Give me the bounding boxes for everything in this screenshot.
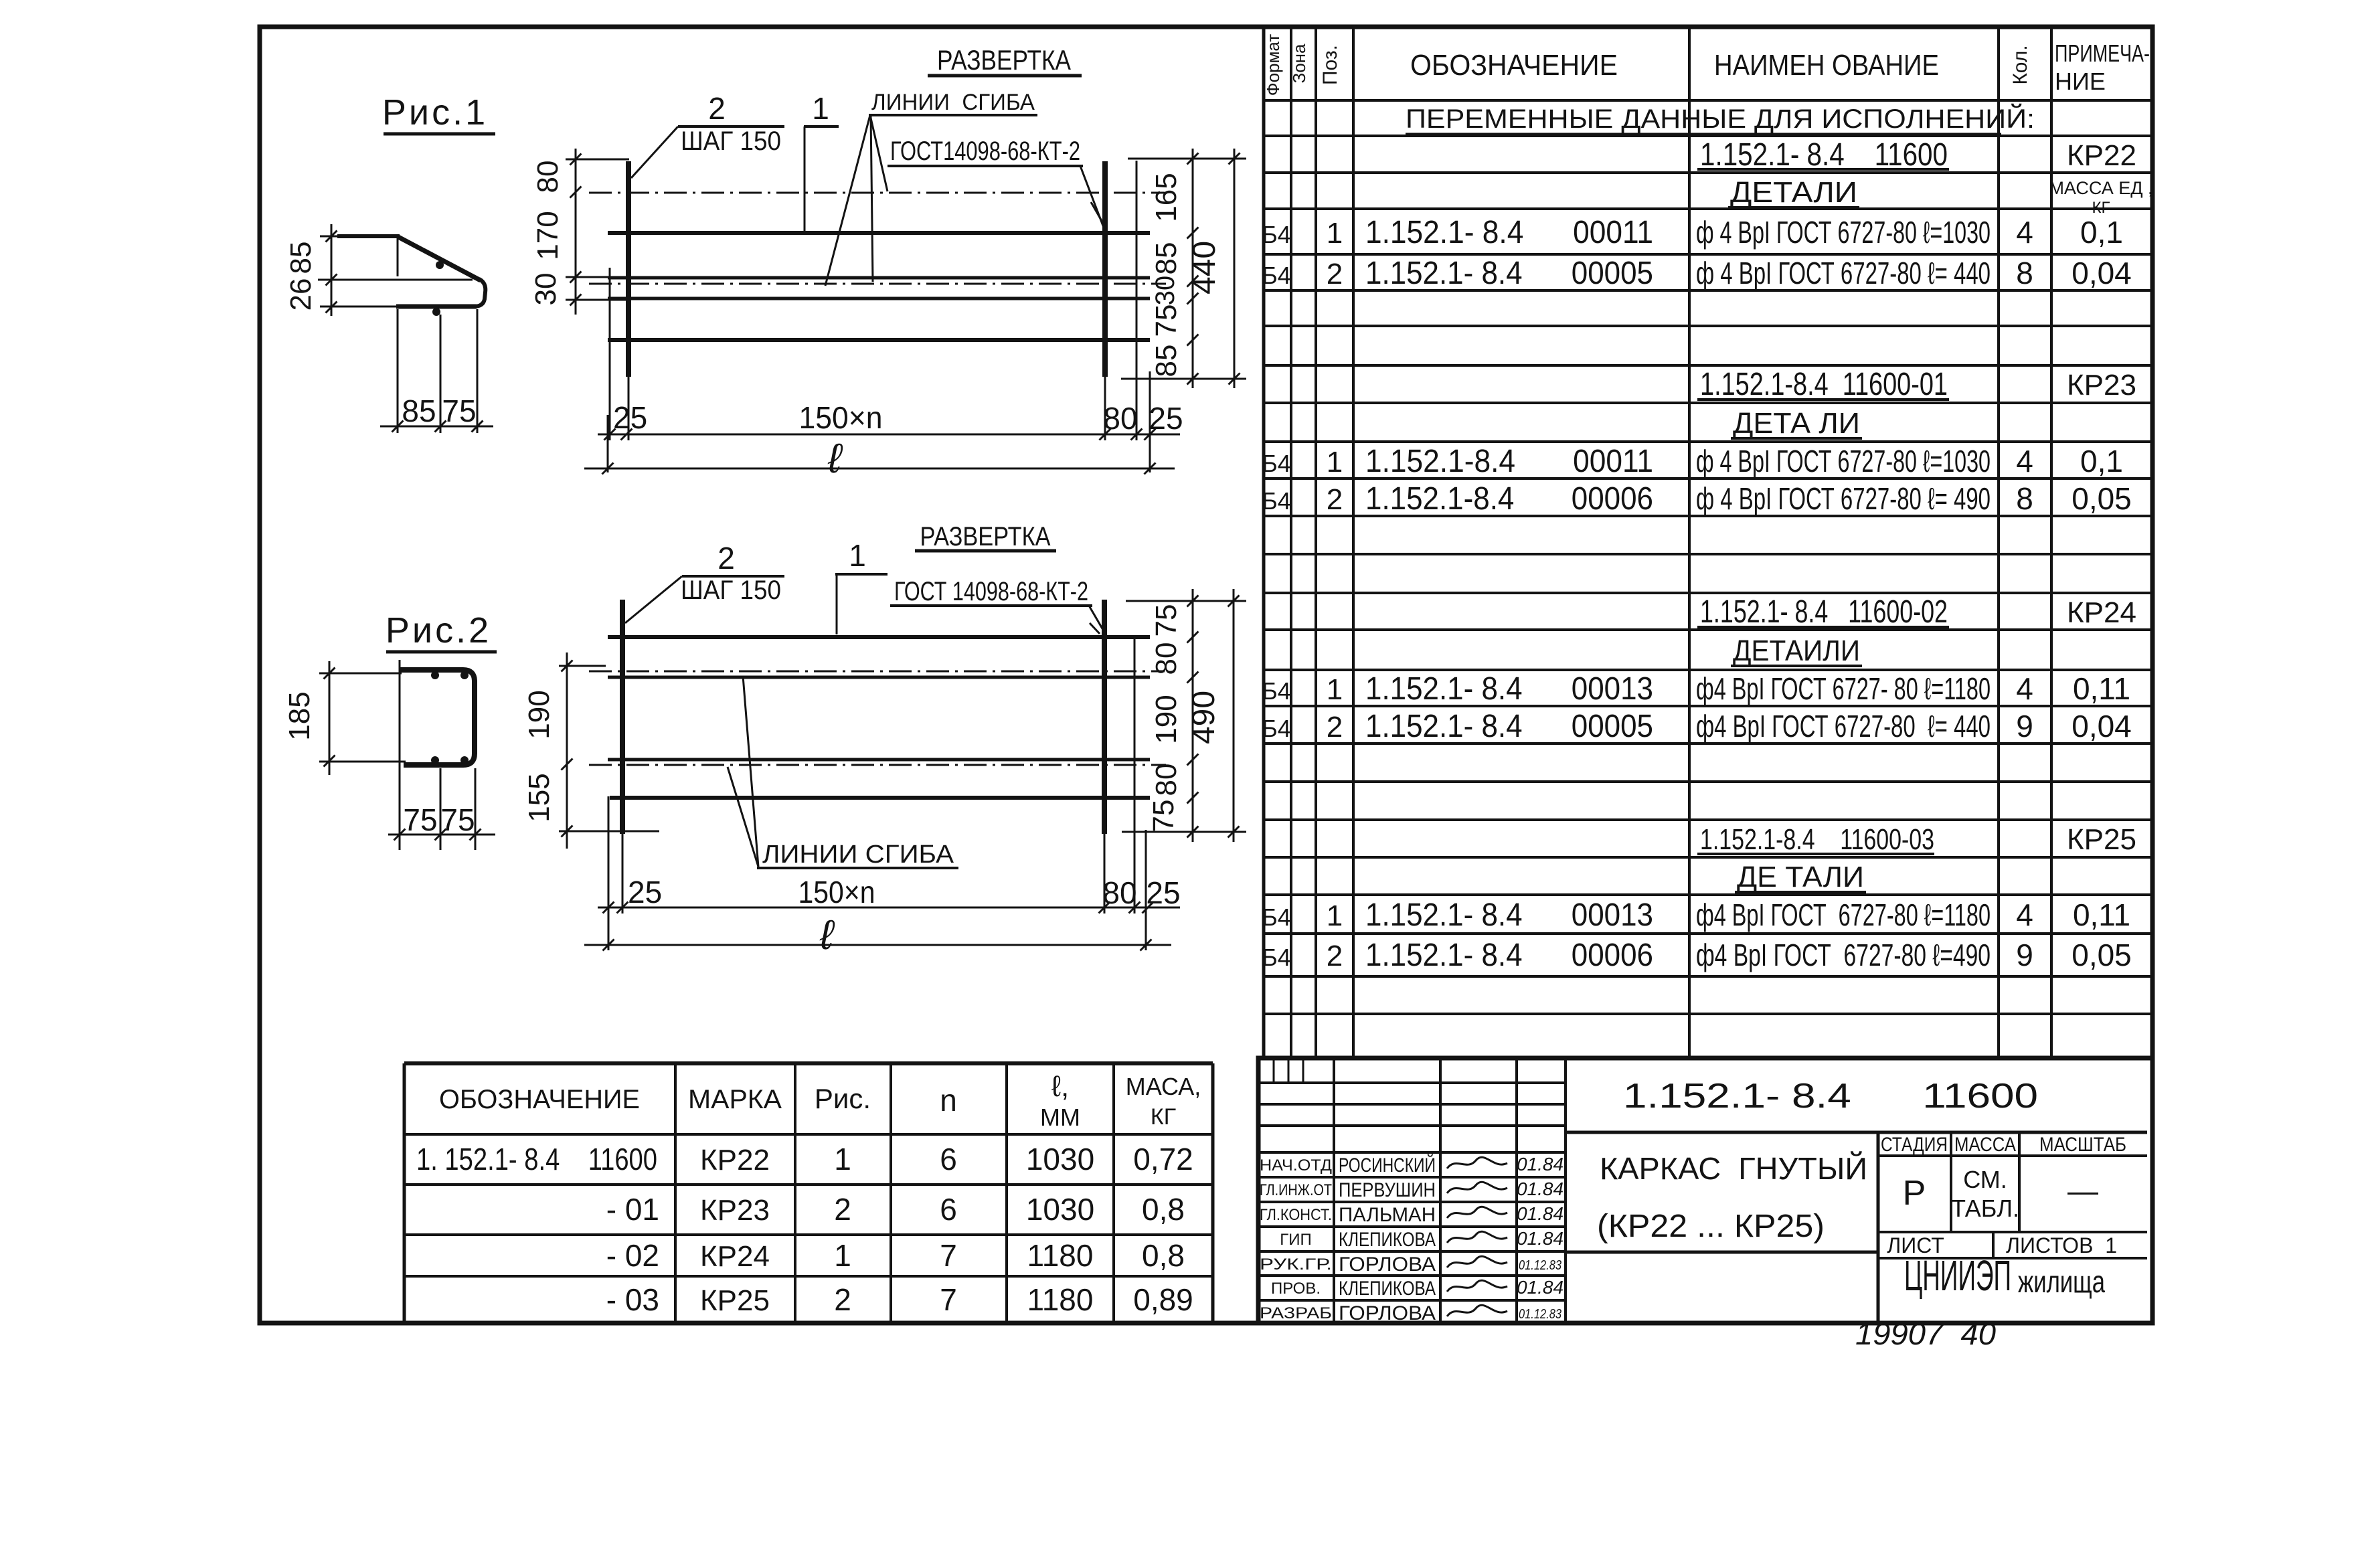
spec row: item 4-2 (1262, 938, 2132, 973)
svg-text:ГОСТ14098-68-КТ-2: ГОСТ14098-68-КТ-2 (890, 137, 1080, 166)
svg-text:4: 4 (2016, 671, 2033, 706)
marks table row КР25 (606, 1282, 1193, 1317)
svg-text:ДЕ ТАЛИ: ДЕ ТАЛИ (1737, 861, 1864, 893)
svg-text:190: 190 (1150, 695, 1183, 744)
development1 wire 1 (608, 231, 1150, 235)
svg-text:0,05: 0,05 (2072, 481, 2132, 516)
svg-text:1.152.1-8.4 00011: 1.152.1-8.4 00011 (1365, 444, 1653, 479)
development1 item 1 label (804, 91, 839, 232)
spec row: designation 11600 KP22 (1697, 137, 2136, 173)
svg-text:ОБОЗНАЧЕНИЕ: ОБОЗНАЧЕНИЕ (1410, 49, 1618, 82)
svg-text:1.152.1-8.4 00006: 1.152.1-8.4 00006 (1365, 481, 1653, 517)
svg-text:75: 75 (442, 394, 476, 428)
svg-text:75: 75 (1150, 304, 1183, 337)
svg-text:0,8: 0,8 (1142, 1238, 1185, 1273)
development1 weld label GOST 14098 (888, 137, 1104, 228)
svg-text:85: 85 (284, 242, 317, 274)
svg-text:2: 2 (834, 1282, 851, 1317)
svg-text:НАИМЕН ОВАНИЕ: НАИМЕН ОВАНИЕ (1714, 49, 1939, 82)
svg-text:ℓ: ℓ (827, 436, 843, 482)
spec row: item 2-1 (1262, 444, 2123, 479)
svg-text:80: 80 (1103, 401, 1137, 436)
svg-text:1180: 1180 (1027, 1238, 1094, 1273)
svg-text:80: 80 (531, 161, 564, 193)
svg-text:0,72: 0,72 (1133, 1142, 1193, 1177)
svg-text:Формат: Формат (1263, 34, 1283, 96)
svg-text:n: n (940, 1083, 957, 1118)
svg-text:ОБОЗНАЧЕНИЕ: ОБОЗНАЧЕНИЕ (439, 1085, 640, 1114)
fig1 bottom dimension 85 75 (380, 394, 493, 432)
svg-text:1030: 1030 (1026, 1142, 1094, 1177)
svg-text:МАСШТАБ: МАСШТАБ (2039, 1134, 2126, 1156)
spec row: details heading 3 (1731, 634, 1862, 667)
title block row Разраб Горлова (1260, 1302, 1561, 1324)
svg-text:2: 2 (1327, 940, 1343, 972)
development2 title (915, 522, 1056, 551)
development2 right cross bar (1102, 600, 1107, 834)
fig1 bottom extension lines (398, 309, 477, 433)
spec row: details heading 2 (1731, 407, 1862, 440)
svg-text:490: 490 (1186, 691, 1221, 744)
spec row: details heading 1 (1728, 176, 2153, 217)
svg-text:01.84: 01.84 (1517, 1154, 1564, 1174)
title block row Гл.конст. Пальман (1260, 1203, 1564, 1226)
spec row: item 4-1 (1262, 897, 2130, 933)
development1 bottom chain 25 150xn 80 25 (598, 400, 1183, 440)
development1 left cross bar (626, 161, 631, 377)
svg-text:1: 1 (1327, 217, 1343, 250)
svg-text:жилища: жилища (2018, 1264, 2105, 1299)
svg-text:75: 75 (440, 802, 475, 837)
fig1 section profile: right rounded hook (474, 279, 485, 307)
svg-text:80: 80 (1150, 642, 1183, 675)
fig2 caption (386, 610, 497, 652)
svg-text:2: 2 (834, 1192, 851, 1227)
fig2 bottom dimension 75 75 (388, 802, 495, 841)
title block row Пров. Клепикова (1271, 1277, 1564, 1300)
svg-text:ШАГ 150: ШАГ 150 (681, 126, 781, 156)
development2 bottom chain 25 150xn 80 25 (598, 875, 1181, 913)
svg-text:ф4 ВрI ГОСТ 6727-80 ℓ=490: ф4 ВрI ГОСТ 6727-80 ℓ=490 (1696, 938, 1991, 972)
svg-text:ДЕТАИЛИ: ДЕТАИЛИ (1733, 634, 1860, 667)
svg-text:ф4 ВрI ГОСТ 6727- 80 ℓ=1180: ф4 ВрI ГОСТ 6727- 80 ℓ=1180 (1696, 671, 1991, 706)
development2 left dimension chain 190 155 (523, 652, 659, 849)
svg-text:1: 1 (849, 538, 866, 573)
svg-text:ПЕРЕМЕННЫЕ ДАННЫЕ ДЛЯ ИСПОЛНЕН: ПЕРЕМЕННЫЕ ДАННЫЕ ДЛЯ ИСПОЛНЕНИЙ: (1406, 103, 2035, 134)
svg-text:МАРКА: МАРКА (688, 1085, 782, 1114)
svg-text:МАСА,: МАСА, (1126, 1073, 1201, 1100)
svg-text:150×n: 150×n (799, 400, 883, 435)
development2 overall length dimension (584, 912, 1171, 958)
spec row: item 3-1 (1262, 671, 2130, 707)
svg-text:4: 4 (2016, 215, 2033, 250)
svg-text:РОСИНСКИЙ: РОСИНСКИЙ (1339, 1154, 1436, 1177)
development1 item 2 label with shag 150 (631, 91, 784, 178)
svg-text:8: 8 (2016, 481, 2033, 516)
fig1 caption (382, 92, 495, 134)
development1 fold line lower (589, 283, 1166, 285)
svg-text:Рис.2: Рис.2 (386, 610, 491, 650)
spec row: item 2-2 (1262, 481, 2132, 517)
svg-text:ф 4 ВрI ГОСТ 6727-80 ℓ=1030: ф 4 ВрI ГОСТ 6727-80 ℓ=1030 (1696, 444, 1991, 478)
svg-text:ГОРЛОВА: ГОРЛОВА (1339, 1253, 1436, 1276)
fig1 left dimension line (284, 224, 337, 316)
marks table row КР23 (606, 1192, 1185, 1227)
spec row: item 3-2 (1262, 709, 2132, 744)
development1 left dimension chain 80 170 30 (529, 149, 629, 315)
svg-text:ПАЛЬМАН: ПАЛЬМАН (1339, 1204, 1436, 1226)
svg-text:85: 85 (402, 394, 436, 428)
svg-text:7: 7 (940, 1282, 957, 1317)
development2 wire 3 (608, 758, 1150, 762)
svg-text:РУК.ГР.: РУК.ГР. (1260, 1255, 1332, 1274)
development1 right dimension chain 165 85 30 75 85 (1121, 149, 1246, 388)
svg-text:КАРКАС ГНУТЫЙ: КАРКАС ГНУТЫЙ (1600, 1151, 1867, 1186)
svg-text:1.152.1-8.4 11600-01: 1.152.1-8.4 11600-01 (1700, 367, 1948, 402)
svg-text:170: 170 (531, 211, 564, 260)
svg-text:1.152.1-8.4 11600-03: 1.152.1-8.4 11600-03 (1700, 823, 1934, 856)
svg-text:1.152.1- 8.4 00006: 1.152.1- 8.4 00006 (1365, 938, 1653, 973)
svg-text:25: 25 (613, 400, 647, 435)
svg-text:КР23: КР23 (2067, 369, 2136, 402)
svg-text:0,89: 0,89 (1133, 1282, 1193, 1317)
svg-text:26: 26 (284, 278, 317, 311)
svg-text:9: 9 (2016, 709, 2033, 744)
svg-text:0,1: 0,1 (2080, 215, 2123, 250)
svg-text:Б4: Б4 (1262, 944, 1291, 971)
fig2 section profile C-shape (399, 670, 475, 765)
svg-text:НИЕ: НИЕ (2055, 68, 2106, 95)
spec row: details heading 4 (1735, 861, 1866, 893)
development1 wire 4 (608, 338, 1150, 342)
svg-text:1.152.1- 8.4 00013: 1.152.1- 8.4 00013 (1365, 671, 1653, 707)
title block row Гл.инж.от Первушин (1260, 1179, 1564, 1201)
development1 title (928, 44, 1082, 76)
svg-text:75: 75 (403, 802, 437, 837)
svg-text:1180: 1180 (1027, 1282, 1094, 1317)
fig1 section bottom extension (320, 306, 396, 308)
svg-text:ГЛ.КОНСТ.: ГЛ.КОНСТ. (1260, 1206, 1332, 1224)
svg-text:Б4: Б4 (1262, 903, 1291, 931)
fig1 section profile: top flange (320, 236, 341, 238)
svg-text:01.12.83: 01.12.83 (1519, 1258, 1561, 1273)
svg-text:25: 25 (1149, 401, 1183, 436)
svg-text:ℓ,: ℓ, (1051, 1070, 1069, 1103)
svg-text:ПЕРВУШИН: ПЕРВУШИН (1339, 1179, 1436, 1201)
svg-text:КЛЕПИКОВА: КЛЕПИКОВА (1339, 1229, 1436, 1251)
svg-text:4: 4 (2016, 897, 2033, 932)
svg-text:0,1: 0,1 (2080, 444, 2123, 478)
svg-text:80: 80 (1150, 764, 1183, 796)
title block row Рук.гр. Горлова (1260, 1253, 1561, 1276)
title block list row (1878, 1232, 2147, 1258)
development1 overall length dimension (584, 436, 1175, 482)
svg-text:ШАГ 150: ШАГ 150 (681, 576, 781, 605)
svg-text:440: 440 (1187, 241, 1222, 294)
title block row Нач.отд Росинский (1260, 1154, 1564, 1177)
svg-text:ЛИСТОВ 1: ЛИСТОВ 1 (2006, 1233, 2117, 1257)
development2 item 1 label (835, 538, 888, 634)
development1 label: linii sgiba (869, 90, 1037, 115)
development2 overall dimension 490 (1186, 589, 1240, 842)
svg-text:01.84: 01.84 (1517, 1203, 1564, 1224)
svg-text:7: 7 (940, 1238, 957, 1273)
spec row: item 1-2 (1262, 256, 2132, 291)
svg-text:Р: Р (1903, 1174, 1926, 1213)
development2 fold line upper (589, 671, 1165, 673)
svg-text:РАЗВЕРТКА: РАЗВЕРТКА (920, 522, 1051, 551)
svg-text:КР23: КР23 (700, 1194, 770, 1227)
marks table header (439, 1070, 1201, 1131)
svg-text:ГИП: ГИП (1280, 1231, 1312, 1249)
fig1 wire dot on diagonal (436, 261, 444, 269)
title block designation cell (1566, 1077, 2147, 1132)
svg-text:0,11: 0,11 (2073, 671, 2130, 706)
svg-text:2: 2 (717, 541, 735, 576)
svg-text:Поз.: Поз. (1319, 45, 1341, 85)
svg-text:ТАБЛ.: ТАБЛ. (1951, 1195, 2019, 1222)
development1 fold leader lines (825, 115, 888, 286)
spec row: designation 11600-02 KP24 (1697, 594, 2136, 630)
development2 fold line lower (589, 764, 1166, 766)
svg-text:1. 152.1- 8.4 11600: 1. 152.1- 8.4 11600 (416, 1142, 657, 1177)
svg-text:1: 1 (1327, 446, 1343, 478)
svg-text:ПРИМЕЧА-: ПРИМЕЧА- (2055, 39, 2150, 67)
svg-text:КГ: КГ (2092, 199, 2110, 217)
fig1 section profile: diagonal web (398, 237, 481, 280)
svg-text:ф 4 ВрI ГОСТ 6727-80 ℓ= 490: ф 4 ВрI ГОСТ 6727-80 ℓ= 490 (1696, 481, 1991, 516)
svg-text:Рис.1: Рис.1 (382, 92, 488, 133)
svg-text:1.152.1- 8.4 11600-02: 1.152.1- 8.4 11600-02 (1700, 594, 1948, 630)
svg-text:165: 165 (1150, 173, 1183, 222)
svg-text:1.152.1- 8.4 00013: 1.152.1- 8.4 00013 (1365, 897, 1653, 933)
svg-text:ЦНИИЭП: ЦНИИЭП (1904, 1251, 2011, 1300)
svg-text:- 02: - 02 (606, 1238, 659, 1273)
svg-text:25: 25 (1146, 875, 1180, 910)
svg-text:ℓ: ℓ (819, 912, 835, 958)
svg-text:80: 80 (1102, 875, 1136, 910)
svg-text:КР22: КР22 (700, 1144, 770, 1177)
svg-text:190: 190 (523, 690, 556, 739)
svg-text:8: 8 (2016, 256, 2033, 290)
development2 wire 2 (608, 676, 1150, 679)
svg-text:4: 4 (2016, 444, 2033, 478)
svg-text:МАССА ЕД ,: МАССА ЕД , (2049, 178, 2152, 198)
svg-text:1.152.1- 8.4 00005: 1.152.1- 8.4 00005 (1365, 256, 1653, 291)
svg-text:2: 2 (1327, 258, 1343, 290)
svg-text:2: 2 (1327, 711, 1343, 744)
svg-text:0,04: 0,04 (2072, 709, 2132, 744)
fig1 section profile: fold edge vertical (397, 236, 399, 276)
svg-text:2: 2 (1327, 483, 1343, 516)
svg-text:Кол.: Кол. (2009, 45, 2031, 84)
svg-text:85: 85 (1150, 242, 1183, 275)
svg-text:РАЗВЕРТКА: РАЗВЕРТКА (937, 44, 1071, 76)
fig2 left dimension 185 (283, 661, 406, 775)
svg-text:ГЛ.ИНЖ.ОТ: ГЛ.ИНЖ.ОТ (1260, 1181, 1332, 1199)
svg-text:ф 4 ВрI ГОСТ 6727-80 ℓ=1030: ф 4 ВрI ГОСТ 6727-80 ℓ=1030 (1696, 215, 1991, 250)
svg-text:ПРОВ.: ПРОВ. (1271, 1280, 1321, 1298)
svg-text:155: 155 (523, 773, 556, 822)
svg-text:1.152.1- 8.4 00005: 1.152.1- 8.4 00005 (1365, 709, 1653, 744)
svg-text:185: 185 (283, 691, 316, 740)
development1 fold line upper (589, 192, 1165, 194)
svg-text:Б4: Б4 (1262, 487, 1291, 515)
svg-text:150×n: 150×n (798, 875, 875, 909)
spec row: designation 11600-03 KP25 (1697, 823, 2136, 856)
development2 item 2 label with shag 150 (625, 541, 784, 623)
svg-text:ЛИНИИ СГИБА: ЛИНИИ СГИБА (871, 90, 1035, 115)
svg-text:Б4: Б4 (1262, 450, 1291, 477)
svg-text:ф 4 ВрI ГОСТ 6727-80 ℓ= 440: ф 4 ВрI ГОСТ 6727-80 ℓ= 440 (1696, 256, 1991, 290)
spec table header (1263, 34, 2150, 96)
svg-text:85: 85 (1150, 345, 1183, 377)
svg-text:9: 9 (2016, 938, 2033, 972)
svg-text:ф4 ВрI ГОСТ 6727-80 ℓ=1180: ф4 ВрI ГОСТ 6727-80 ℓ=1180 (1696, 897, 1991, 932)
title block logo CNIIEP zhilishcha (1878, 1251, 2147, 1300)
svg-text:75: 75 (1150, 604, 1183, 637)
svg-text:СМ.: СМ. (1963, 1166, 2007, 1193)
svg-text:2: 2 (708, 91, 726, 126)
svg-text:1.152.1- 8.4 11600: 1.152.1- 8.4 11600 (1623, 1077, 2038, 1116)
svg-text:6: 6 (940, 1192, 957, 1227)
development1 overall dimension 440 (1187, 149, 1240, 388)
svg-text:1: 1 (812, 91, 829, 126)
svg-text:1: 1 (834, 1238, 851, 1273)
svg-text:МАССА: МАССА (1954, 1134, 2016, 1156)
development2 right dimension chain 75 80 190 80 75 (1122, 589, 1246, 842)
svg-text:- 01: - 01 (606, 1192, 659, 1227)
svg-text:КР25: КР25 (2067, 823, 2136, 856)
svg-text:0,05: 0,05 (2072, 938, 2132, 972)
svg-text:0,11: 0,11 (2073, 897, 2130, 932)
fig2 bottom extension lines (400, 660, 475, 850)
development2 extension verticals (608, 636, 1146, 950)
svg-text:25: 25 (628, 875, 662, 909)
svg-text:1.152.1- 8.4 11600: 1.152.1- 8.4 11600 (1700, 137, 1948, 173)
svg-text:—: — (2067, 1173, 2098, 1208)
svg-text:1: 1 (1327, 673, 1343, 706)
svg-text:КР24: КР24 (2067, 596, 2136, 629)
development2 weld label GOST 14098 (890, 577, 1106, 634)
spec row: designation 11600-01 KP23 (1697, 367, 2136, 402)
svg-text:ЛИНИИ СГИБА: ЛИНИИ СГИБА (762, 841, 954, 869)
svg-text:ф4 ВрI ГОСТ 6727-80 ℓ= 440: ф4 ВрI ГОСТ 6727-80 ℓ= 440 (1696, 709, 1991, 744)
svg-text:30: 30 (1151, 276, 1180, 306)
svg-text:1030: 1030 (1026, 1192, 1094, 1227)
title block stadia/massa/masshtab (1878, 1132, 2147, 1232)
svg-text:ММ: ММ (1040, 1104, 1080, 1131)
svg-text:75: 75 (1147, 800, 1180, 833)
svg-text:КР25: КР25 (700, 1284, 770, 1317)
svg-text:КЛЕПИКОВА: КЛЕПИКОВА (1339, 1278, 1436, 1300)
marks table grid (404, 1063, 1213, 1323)
marks table row КР24 (606, 1238, 1185, 1273)
spec row: item 1-1 (1262, 215, 2123, 250)
svg-text:ГОРЛОВА: ГОРЛОВА (1339, 1302, 1436, 1324)
svg-text:0,04: 0,04 (2072, 256, 2132, 290)
fig1 wire dot under bottom flange (432, 308, 440, 316)
svg-text:ДЕТАЛИ: ДЕТАЛИ (1730, 176, 1857, 209)
svg-text:Рис.: Рис. (815, 1083, 871, 1114)
fig2 wire dots (431, 671, 469, 764)
specification table grid (1264, 27, 2152, 1058)
svg-text:СТАДИЯ: СТАДИЯ (1881, 1134, 1948, 1156)
development2 wire 1 (608, 635, 1150, 639)
svg-text:РАЗРАБ: РАЗРАБ (1260, 1304, 1332, 1322)
svg-text:ГОСТ 14098-68-КТ-2: ГОСТ 14098-68-КТ-2 (894, 577, 1088, 606)
svg-text:0,8: 0,8 (1142, 1192, 1185, 1227)
fig1 section mid surface line (318, 279, 473, 281)
development2 label: linii sgiba (728, 676, 958, 869)
development2 wire 4 (610, 796, 1150, 800)
development1 extension verticals (608, 161, 1150, 472)
svg-text:1.152.1- 8.4 00011: 1.152.1- 8.4 00011 (1365, 215, 1653, 250)
svg-text:КГ: КГ (1151, 1104, 1176, 1130)
svg-text:1: 1 (834, 1142, 851, 1177)
svg-text:6: 6 (940, 1142, 957, 1177)
svg-text:01.84: 01.84 (1517, 1277, 1564, 1298)
svg-text:(КР22 ... КР25): (КР22 ... КР25) (1597, 1209, 1825, 1244)
svg-text:01.84: 01.84 (1517, 1228, 1564, 1249)
spec row: variable data heading (1406, 103, 2035, 134)
svg-text:19907 40: 19907 40 (1855, 1316, 1996, 1351)
svg-text:30: 30 (529, 273, 562, 306)
svg-text:Б4: Б4 (1262, 262, 1291, 289)
fig1 section profile: bottom flange (396, 304, 477, 309)
sheet border frame (260, 27, 2152, 1323)
svg-text:Зона: Зона (1289, 43, 1309, 84)
svg-text:ДЕТА ЛИ: ДЕТА ЛИ (1733, 407, 1860, 440)
title block frame (1258, 1058, 2152, 1324)
svg-text:НАЧ.ОТД: НАЧ.ОТД (1260, 1156, 1332, 1174)
development2 left cross bar (620, 600, 625, 834)
title block name cell (1566, 1132, 1878, 1324)
svg-text:Б4: Б4 (1262, 677, 1291, 705)
svg-text:КР22: КР22 (2067, 139, 2136, 172)
svg-text:1: 1 (1327, 899, 1343, 932)
development1 right cross bar (1102, 161, 1108, 377)
svg-text:Б4: Б4 (1262, 221, 1291, 248)
svg-text:Б4: Б4 (1262, 715, 1291, 742)
svg-text:01.84: 01.84 (1517, 1179, 1564, 1199)
svg-text:- 03: - 03 (606, 1282, 659, 1317)
svg-text:КР24: КР24 (700, 1240, 770, 1273)
svg-text:01.12.83: 01.12.83 (1519, 1307, 1561, 1322)
development1 wire 2 (608, 276, 1150, 280)
development1 wire 3 (608, 297, 1150, 300)
title block row ГИП Клепикова (1280, 1228, 1564, 1251)
marks table row КР22 (416, 1142, 1193, 1177)
